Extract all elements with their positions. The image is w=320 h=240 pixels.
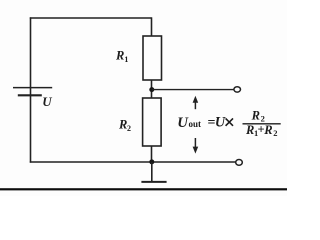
fraction bar R2/(R1+R2) [243, 123, 281, 125]
label U (battery value) [42, 94, 52, 109]
svg-text:U: U [215, 115, 226, 131]
label R2 [118, 118, 131, 133]
ground [141, 181, 166, 183]
svg-text:R: R [263, 123, 272, 137]
svg-text:U: U [42, 94, 52, 109]
arrow down (Uout lower) [193, 138, 199, 154]
terminal upper (open circle) [234, 87, 241, 92]
svg-text:1: 1 [124, 55, 128, 64]
terminal lower (open circle) [236, 160, 243, 166]
wire from top to R1 [151, 17, 153, 36]
svg-text:U: U [177, 115, 189, 131]
svg-text:R: R [245, 123, 254, 137]
node junction B (bottom) [149, 159, 154, 164]
wire R1 to R2 [151, 80, 153, 99]
arrow up (Uout upper) [193, 96, 199, 110]
label fraction numerator R2 [251, 109, 265, 124]
node junction A (between R1 and R2) [149, 87, 154, 92]
label fraction denominator R1+R2 [245, 123, 277, 138]
resistor R1 [143, 36, 162, 80]
wire R2 to bottom [151, 146, 153, 162]
svg-text:R: R [115, 48, 124, 62]
wire left vertical upper [30, 17, 32, 95]
svg-text:2: 2 [273, 128, 277, 138]
wire left vertical lower [30, 95, 32, 162]
label Uout formula [177, 115, 233, 131]
wire junction A to upper terminal [152, 89, 234, 91]
svg-text:2: 2 [127, 124, 131, 133]
resistor R2 [143, 98, 162, 146]
svg-text:R: R [118, 118, 127, 132]
bottom page rule (frame) [0, 188, 287, 190]
wire bottom horizontal [30, 161, 236, 163]
wire junction B to ground [151, 162, 153, 182]
svg-text:R: R [251, 109, 260, 123]
wire top horizontal [30, 17, 152, 19]
label R1 [115, 48, 128, 64]
svg-text:out: out [189, 119, 202, 129]
battery U plate short [18, 94, 42, 96]
battery U plate long [13, 87, 52, 89]
